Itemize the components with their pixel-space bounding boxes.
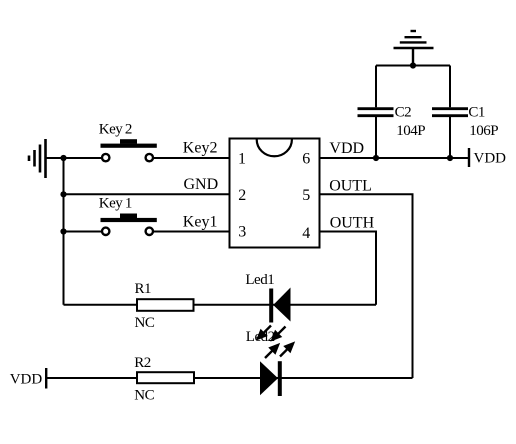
svg-text:Key1: Key1 (99, 196, 132, 212)
wire: IC pin6 to VDD bar (320, 157, 470, 159)
wire: left vertical bus (63, 158, 65, 305)
LED Led2 (246, 329, 293, 396)
wire: Key1 right terminal to IC pin3 (154, 231, 230, 233)
op-amp U1 (6-pin IC body) (230, 139, 320, 248)
wire: R1/Led1 row (64, 304, 377, 306)
wire: left ground to Key2 left terminal (46, 157, 102, 159)
svg-text:C2: C2 (395, 104, 412, 120)
wire: GND row to IC pin2 (64, 193, 230, 195)
capacitor C2 (358, 66, 426, 159)
svg-text:Led1: Led1 (245, 272, 274, 288)
node junction at left bus row1 (60, 155, 66, 161)
node junction C2 bottom (373, 155, 379, 161)
svg-text:GND: GND (184, 176, 219, 193)
wire: left bus to Key1 left terminal (64, 231, 102, 233)
wire: top rail between C2 and C1 (376, 65, 450, 67)
power VDD (right) (469, 148, 506, 167)
svg-text:VDD: VDD (474, 151, 507, 167)
svg-text:C1: C1 (468, 104, 485, 120)
wire: Key2 right terminal to IC pin1 (154, 157, 230, 159)
svg-text:OUTL: OUTL (329, 177, 372, 194)
svg-text:4: 4 (302, 225, 310, 242)
capacitor C1 (432, 66, 498, 159)
svg-text:Key1: Key1 (183, 213, 218, 230)
resistor R2 (134, 355, 194, 404)
node junction at left bus row3 (60, 228, 66, 234)
switch Key2 (99, 122, 157, 162)
ground GND2 (top earth ground) (394, 31, 434, 66)
node junction at left bus row2 (60, 191, 66, 197)
svg-text:104P: 104P (396, 123, 425, 139)
wire: IC pin5 OUTL right then down (320, 194, 413, 378)
node junction top (410, 62, 416, 68)
svg-text:R2: R2 (134, 355, 151, 371)
svg-text:106P: 106P (469, 123, 498, 139)
svg-text:1: 1 (238, 150, 246, 167)
Led1 emission arrows (258, 326, 286, 340)
svg-text:OUTH: OUTH (330, 215, 375, 232)
power VDD (bottom-left) (10, 368, 47, 389)
svg-text:2: 2 (238, 187, 246, 204)
switch Key1 (99, 196, 157, 235)
svg-text:VDD: VDD (10, 371, 43, 387)
svg-text:Key2: Key2 (183, 140, 218, 157)
svg-text:NC: NC (134, 387, 154, 403)
node junction C1 bottom (447, 155, 453, 161)
svg-text:3: 3 (238, 223, 246, 240)
resistor R1 (135, 281, 194, 331)
svg-text:5: 5 (302, 187, 310, 204)
svg-text:Led2: Led2 (246, 329, 275, 345)
svg-text:6: 6 (302, 150, 310, 167)
svg-text:VDD: VDD (329, 140, 364, 157)
svg-text:NC: NC (135, 315, 155, 331)
wire: IC pin4 OUTH right then down (320, 232, 377, 305)
svg-text:R1: R1 (135, 281, 152, 297)
wire: R2/Led2 row (46, 377, 412, 379)
svg-text:Key2: Key2 (99, 122, 132, 138)
ground GND1 (left earth ground) (29, 139, 46, 178)
LED Led1 (245, 272, 290, 340)
Led2 emission arrows (265, 344, 293, 359)
